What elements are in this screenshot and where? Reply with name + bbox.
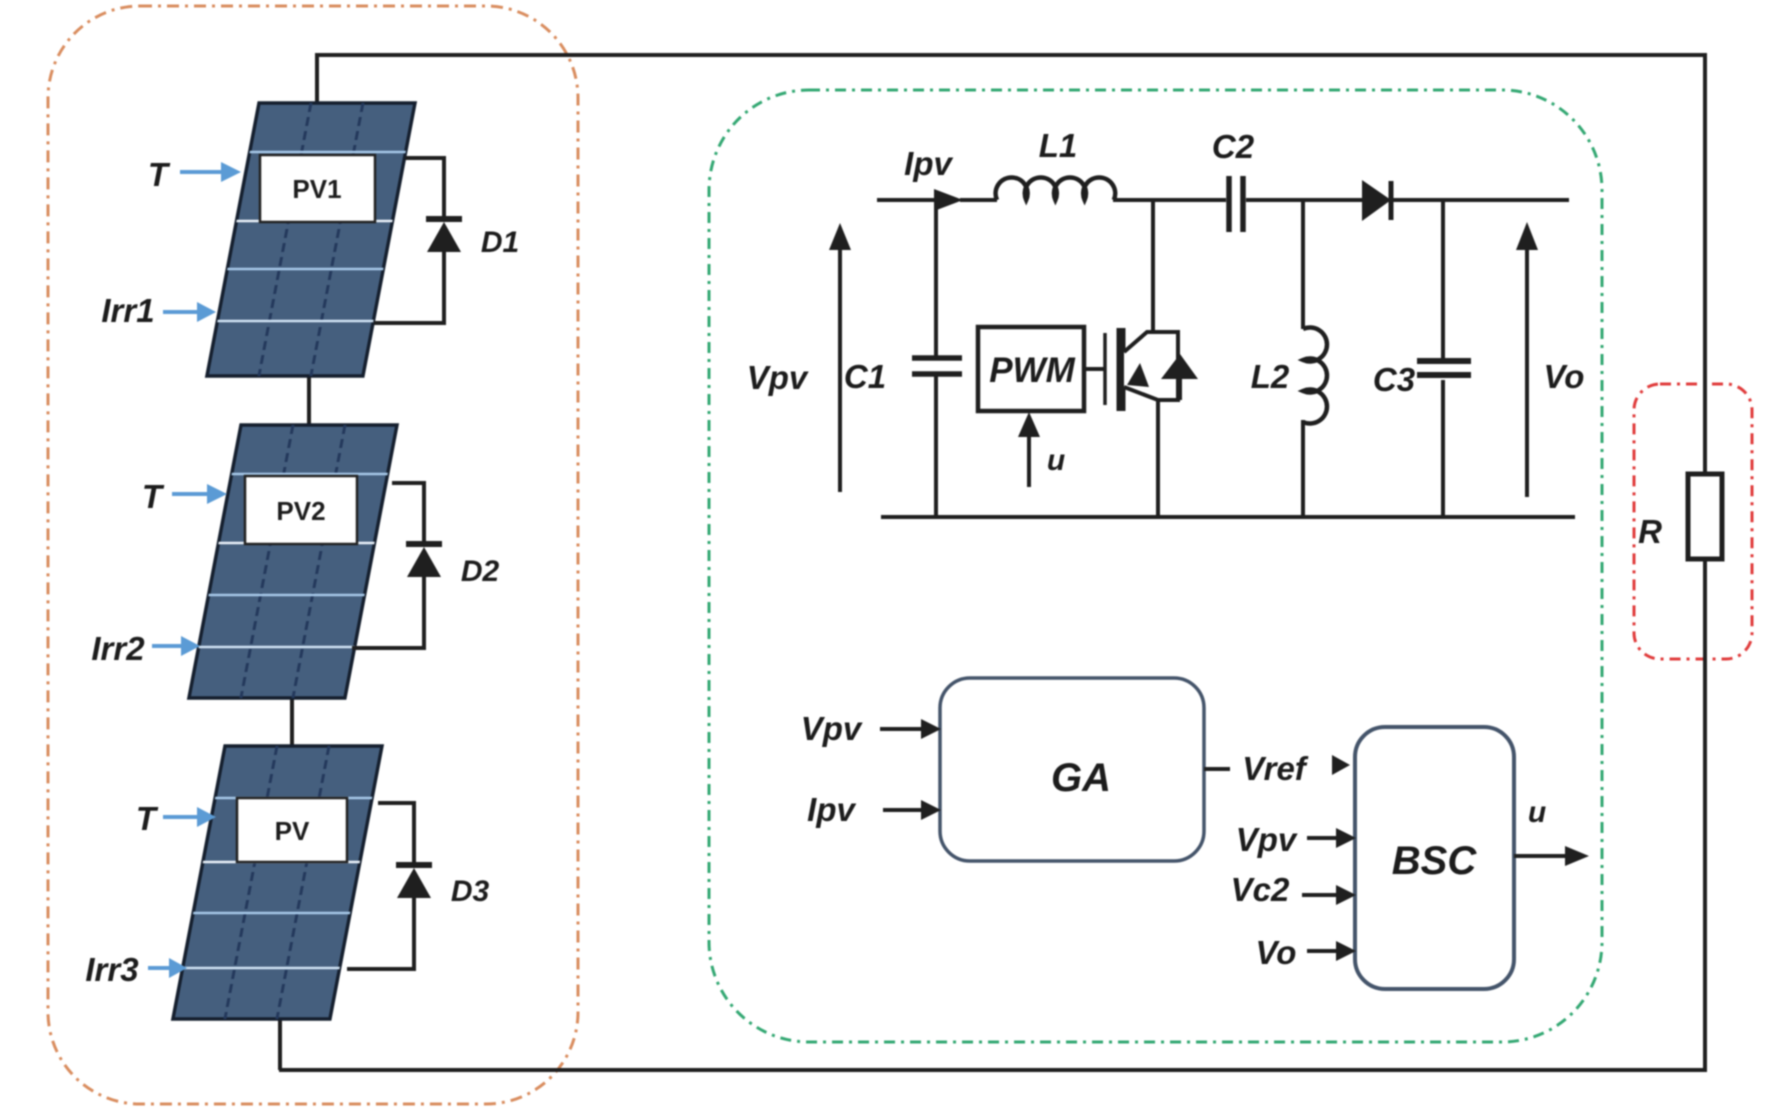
label L2 <box>1251 358 1290 395</box>
svg-text:PV: PV <box>275 816 310 846</box>
transistor Q1 (IGBT) <box>1105 328 1198 411</box>
capacitor C2 <box>1229 176 1243 232</box>
label Irr2 <box>91 630 145 667</box>
wire: C1 upper <box>934 200 938 356</box>
wire D2 loop <box>352 483 424 648</box>
svg-text:Ipv: Ipv <box>807 791 856 828</box>
label C1 <box>844 358 886 395</box>
label C2 <box>1212 128 1255 165</box>
wire: L1 to C2 <box>1113 198 1226 202</box>
label Vo (BSC input) <box>1256 934 1297 971</box>
svg-text:GA: GA <box>1051 756 1111 800</box>
svg-text:L2: L2 <box>1251 358 1290 395</box>
svg-text:D3: D3 <box>451 875 490 908</box>
diode D (output) <box>1362 180 1391 221</box>
arrow Irr3 <box>148 958 187 978</box>
svg-text:PWM: PWM <box>989 351 1075 390</box>
label T (PV2) <box>142 478 165 515</box>
wire: IGBT emitter <box>1156 400 1160 519</box>
svg-text:C3: C3 <box>1373 361 1415 398</box>
svg-text:C2: C2 <box>1212 128 1255 165</box>
svg-text:Vpv: Vpv <box>1236 821 1298 858</box>
label Vpv (BSC input) <box>1236 821 1298 858</box>
PV3 label box <box>237 798 347 862</box>
svg-text:D2: D2 <box>461 555 500 588</box>
arrow Irr1 <box>163 302 216 322</box>
svg-text:Irr2: Irr2 <box>91 630 145 667</box>
arrow Ipv to GA <box>883 800 941 820</box>
label R <box>1638 513 1662 550</box>
arrow Vpv to GA <box>880 719 941 739</box>
arrow T (PV1) <box>180 162 241 182</box>
wire: C2 to diode <box>1246 198 1362 202</box>
label Vpv (GA input) <box>801 710 863 747</box>
svg-text:PV1: PV1 <box>292 174 341 204</box>
svg-text:T: T <box>148 156 171 193</box>
wire: converter bottom rail <box>881 515 1575 519</box>
diode D3 <box>396 865 432 898</box>
svg-text:Irr1: Irr1 <box>101 292 154 329</box>
wire: PV1-PV2 lead <box>307 376 311 426</box>
label D1 <box>481 226 519 259</box>
wire: PV1 top lead <box>315 53 319 104</box>
svg-text:Vpv: Vpv <box>801 710 863 747</box>
arrow u (into PWM) <box>1018 412 1040 487</box>
label D2 <box>461 555 500 588</box>
PV1 label box <box>260 155 375 222</box>
svg-text:T: T <box>142 478 165 515</box>
wire: converter input <box>877 198 934 202</box>
PV2 label box <box>245 476 357 544</box>
arrow Vpv <box>829 223 851 492</box>
label T (PV3) <box>136 800 159 837</box>
converter boundary (green dash-dot) <box>709 90 1602 1042</box>
wire: C3 lower <box>1441 380 1445 519</box>
diode D1 <box>426 219 462 252</box>
PV panel PV1 <box>207 103 415 376</box>
arrow Vref to BSC <box>1332 755 1350 775</box>
svg-text:u: u <box>1528 796 1546 829</box>
svg-text:PV2: PV2 <box>276 496 325 526</box>
resistor R <box>1688 474 1722 559</box>
svg-text:T: T <box>136 800 159 837</box>
label T (PV1) <box>148 156 171 193</box>
block BSC <box>1355 727 1514 989</box>
wire D1 loop <box>374 158 444 323</box>
wire: input to L1 <box>960 198 997 202</box>
label L1 <box>1039 127 1078 164</box>
PWM box U1 <box>978 327 1084 411</box>
wire: IGBT collector <box>1151 200 1155 332</box>
inductor L1 <box>996 177 1116 200</box>
svg-text:BSC: BSC <box>1392 839 1478 883</box>
arrow Vo (output voltage) <box>1516 222 1538 497</box>
arrow T (PV3) <box>163 807 216 827</box>
label Vref <box>1242 750 1309 787</box>
wire: right rail <box>1703 53 1707 1070</box>
svg-text:D1: D1 <box>481 226 519 259</box>
svg-text:C1: C1 <box>844 358 886 395</box>
svg-text:Irr3: Irr3 <box>85 951 138 988</box>
PV panel PV3 <box>173 746 382 1019</box>
arrow u output <box>1514 846 1589 866</box>
label Vpv (converter) <box>747 359 809 396</box>
PV panel PV2 <box>189 425 397 698</box>
svg-text:Vc2: Vc2 <box>1231 871 1290 908</box>
svg-text:Vo: Vo <box>1544 358 1585 395</box>
svg-text:R: R <box>1638 513 1662 550</box>
svg-text:Vo: Vo <box>1256 934 1297 971</box>
wire: PV2-PV3 lead <box>290 698 294 747</box>
label C3 <box>1373 361 1415 398</box>
label Vc2 (BSC input) <box>1231 871 1290 908</box>
arrow Vo to BSC <box>1307 941 1356 961</box>
inductor L2 <box>1303 328 1327 424</box>
wire D3 loop <box>347 803 414 969</box>
svg-text:Vpv: Vpv <box>747 359 809 396</box>
label Irr3 <box>85 951 138 988</box>
capacitor C3 <box>1417 361 1471 375</box>
wire: top rail <box>317 53 1705 57</box>
label u (PWM input) <box>1047 444 1065 477</box>
arrow Vc2 to BSC <box>1302 885 1356 905</box>
arrow T (PV2) <box>172 484 227 504</box>
capacitor C1 <box>912 358 962 374</box>
wire: bottom rail <box>279 1068 1707 1072</box>
arrow Vpv to BSC <box>1307 828 1356 848</box>
wire: GA output <box>1204 767 1230 771</box>
PV array boundary (orange dash-dot) <box>48 6 578 1104</box>
wire: diode to end <box>1391 198 1569 202</box>
block GA <box>940 678 1204 861</box>
label Vo (converter) <box>1544 358 1585 395</box>
load boundary (red dash-dot) <box>1634 384 1752 659</box>
wire: C3 upper <box>1441 200 1445 361</box>
label Ipv (GA input) <box>807 791 856 828</box>
wire: L2 lower <box>1301 420 1305 519</box>
arrow Irr2 <box>152 636 200 656</box>
svg-text:Ipv: Ipv <box>904 145 953 182</box>
arrow Ipv <box>934 189 963 211</box>
label D3 <box>451 875 490 908</box>
wire: L2 upper <box>1301 200 1305 329</box>
wire: C1 lower <box>934 376 938 519</box>
label Irr1 <box>101 292 154 329</box>
svg-text:u: u <box>1047 444 1065 477</box>
svg-text:Vref: Vref <box>1242 750 1309 787</box>
wire: PV3 bottom lead <box>278 1018 282 1070</box>
label u (BSC output) <box>1528 796 1546 829</box>
wire: PWM to gate <box>1084 367 1105 371</box>
diode D2 <box>406 544 442 577</box>
label Ipv (converter input) <box>904 145 953 182</box>
svg-text:L1: L1 <box>1039 127 1078 164</box>
